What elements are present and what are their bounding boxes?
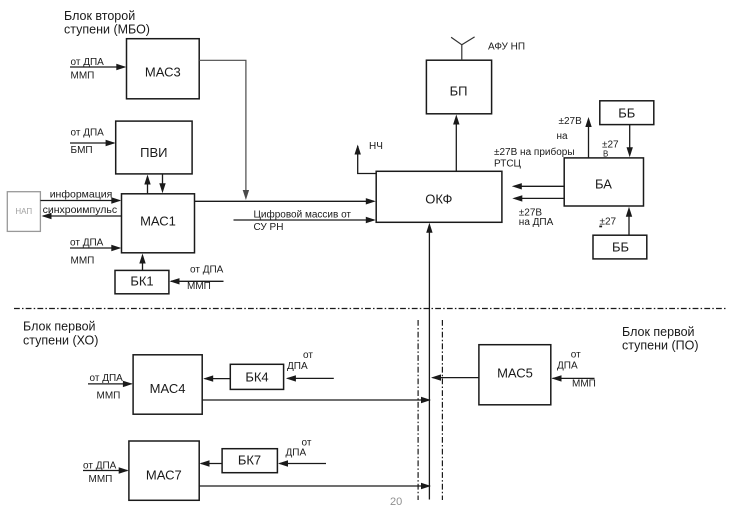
wire Цифровой массив от СУРН to ОКФ [234,209,376,234]
svg-text:от: от [303,350,313,361]
svg-text:ММП: ММП [71,256,95,267]
svg-text:от ДПА: от ДПА [70,238,104,249]
svg-text:ДПА: ДПА [557,361,578,372]
wire БА to ОКФ ±27В на приборы РТСЦ [494,146,575,190]
svg-text:ДПА: ДПА [286,448,307,459]
boundary dash-dot vertical right [441,320,443,500]
wire МАС3 output to junction on МАС1-ОКФ line [199,60,249,200]
svg-text:±27В на приборы: ±27В на приборы [494,146,575,158]
block MAC3 [127,39,200,99]
svg-text:Блок первой: Блок первой [23,320,96,334]
divider dash-dot horizontal [14,308,726,310]
svg-text:от ДПА: от ДПА [83,461,117,472]
wire БК1 to МАС1 (up arrow) [139,254,145,271]
wire информация НАП to МАС1 [40,189,121,204]
block БК7 [222,449,277,473]
svg-text:ступени (МБО): ступени (МБО) [64,23,150,37]
wire от ДПА ММП into МАС1 [70,238,121,267]
block НАП (gray) [7,192,40,232]
svg-text:Цифровой массив от: Цифровой массив от [254,209,352,221]
wire МАС7 output to bus [199,483,431,489]
svg-text:В: В [603,150,608,159]
wire от ДПА ММП into МАС4 [88,373,133,402]
wire НЧ output of ОКФ [355,141,383,174]
svg-text:БП: БП [450,84,468,99]
svg-text:НАП: НАП [15,207,32,216]
svg-text:СУ РН: СУ РН [254,222,284,233]
block ББ top [600,101,654,125]
svg-text:ступени (ПО): ступени (ПО) [622,339,698,353]
block ПВИ [116,121,192,174]
svg-text:±27В: ±27В [559,116,583,127]
svg-text:синхроимпульс: синхроимпульс [43,204,117,216]
wire ББ bottom to БА (up arrow) [599,207,632,235]
svg-text:МАС7: МАС7 [146,468,182,483]
wire БК4 to МАС4 [203,375,230,381]
wire от ДПА БМП into ПВИ [70,128,116,157]
svg-text:20: 20 [390,496,402,506]
wire от ДПА ММП into МАС5 [552,350,596,390]
wire ББ top to БА (down arrow) [602,125,633,159]
boundary dash-dot vertical left [417,320,419,500]
block ББ bottom [593,235,647,259]
block МАС5 [479,345,551,405]
block МАС7 [129,441,199,500]
block БК4 [230,364,283,389]
wire main bus into ОКФ bottom (up arrow) [426,223,432,500]
wire БА to ОКФ ±27В на ДПА [512,195,564,228]
svg-text:МАС1: МАС1 [140,214,176,229]
wire МАС1 to ОКФ [195,198,376,204]
block БК1 [115,270,169,293]
svg-text:ОКФ: ОКФ [425,192,452,207]
block ОКФ [376,171,502,222]
wire от ДПА into БК7 [278,438,326,467]
svg-text:ММП: ММП [572,379,596,390]
title: Блок второй ступени (МБО) [64,9,150,37]
svg-text:РТСЦ: РТСЦ [494,159,522,170]
wire от ДПА ММП into МАС7 [83,461,129,486]
svg-text:информация: информация [50,189,113,201]
svg-text:ММП: ММП [187,281,211,292]
wire от ДПА ММП into БК1 [170,265,224,292]
svg-text:от ДПА: от ДПА [71,57,105,68]
svg-text:от ДПА: от ДПА [90,373,124,384]
svg-text:ММП: ММП [71,71,95,82]
svg-text:от: от [571,350,581,361]
block БА [564,158,643,206]
svg-text:ММП: ММП [89,474,113,485]
svg-text:на ДПА: на ДПА [519,217,554,228]
block МАС4 [133,355,202,414]
svg-text:БМП: БМП [71,145,93,156]
block БП [426,60,491,114]
svg-text:МАС4: МАС4 [150,381,186,396]
block МАС1 [122,194,195,253]
svg-text:от ДПА: от ДПА [71,128,105,139]
svg-text:НЧ: НЧ [369,141,383,152]
wire МАС4 output to bus [202,397,431,403]
wire от ДПА into БК4 [286,350,334,382]
svg-text:Блок первой: Блок первой [622,325,695,339]
wire ПВИ to МАС1 (down arrow) [159,174,165,193]
svg-text:от ДПА: от ДПА [190,265,224,276]
svg-text:ББ: ББ [612,240,629,255]
wire от ДПА ММП into МАС3 [70,57,126,82]
svg-text:ММП: ММП [97,391,121,402]
svg-text:МАС3: МАС3 [145,65,181,80]
svg-text:БК7: БК7 [238,453,261,468]
antenna АФУ НП [451,37,525,60]
wire МАС5 output to bus (left arrow) [431,374,479,380]
title: Блок первой ступени (ПО) [622,325,698,353]
svg-text:ступени (ХО): ступени (ХО) [23,334,98,348]
svg-text:БК4: БК4 [245,370,268,385]
wire ОКФ to БП (up arrow) [453,115,459,172]
svg-text:БА: БА [595,177,612,192]
wire синхроимпульс МАС1 to НАП [42,204,122,219]
svg-text:ДПА: ДПА [287,361,308,372]
wire БК7 to МАС7 [200,460,223,466]
svg-text:на: на [557,131,569,142]
wire БА up output ±27В на [557,116,592,158]
svg-text:АФУ НП: АФУ НП [488,42,525,53]
wire МАС1 to ПВИ (up arrow) [144,175,150,194]
svg-text:Блок второй: Блок второй [64,9,135,23]
svg-text:БК1: БК1 [130,274,153,289]
svg-text:МАС5: МАС5 [497,366,533,381]
svg-text:ББ: ББ [618,106,635,121]
title: Блок первой ступени (ХО) [23,320,98,348]
svg-text:ПВИ: ПВИ [140,145,167,160]
